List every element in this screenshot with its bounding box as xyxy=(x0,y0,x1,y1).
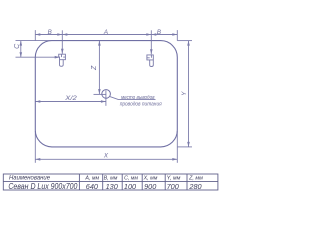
svg-text:Y, мм: Y, мм xyxy=(167,175,181,181)
svg-text:место выводов: место выводов xyxy=(121,95,155,101)
svg-text:C: C xyxy=(14,43,21,49)
svg-text:280: 280 xyxy=(188,182,201,191)
svg-text:проводов питания: проводов питания xyxy=(120,102,162,108)
svg-text:700: 700 xyxy=(167,182,179,191)
svg-text:X: X xyxy=(103,153,109,160)
svg-text:Y: Y xyxy=(181,91,188,96)
svg-text:В, мм: В, мм xyxy=(104,175,118,181)
svg-text:130: 130 xyxy=(106,182,118,191)
svg-text:B: B xyxy=(157,29,161,36)
svg-text:900: 900 xyxy=(144,182,156,191)
svg-text:100: 100 xyxy=(124,182,136,191)
svg-text:Наименование: Наименование xyxy=(9,175,51,182)
svg-text:A: A xyxy=(103,29,108,36)
svg-text:B: B xyxy=(48,29,52,36)
svg-text:X, мм: X, мм xyxy=(143,175,158,181)
svg-text:Севан D Lux 900х700: Севан D Lux 900х700 xyxy=(8,182,78,191)
svg-text:Z, мм: Z, мм xyxy=(188,175,203,181)
svg-text:С, мм: С, мм xyxy=(124,175,138,181)
svg-text:А, мм: А, мм xyxy=(84,175,99,181)
svg-text:640: 640 xyxy=(86,182,98,191)
svg-text:Z: Z xyxy=(91,65,98,71)
svg-text:X/2: X/2 xyxy=(64,95,77,102)
